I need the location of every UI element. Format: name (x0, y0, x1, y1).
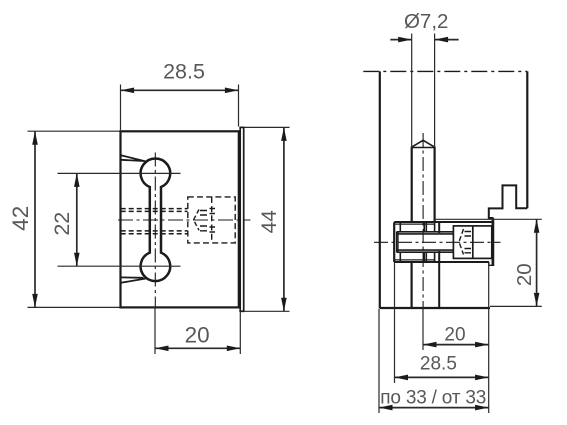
svg-text:20: 20 (513, 263, 536, 286)
body bottom edge (394, 261, 489, 263)
svg-text:22: 22 (50, 212, 74, 236)
svg-text:28.5: 28.5 (420, 354, 457, 375)
dim 28.5 line (121, 89, 239, 91)
cam housing divider (472, 226, 474, 259)
pin edges (412, 148, 435, 223)
pin shoulder (412, 147, 435, 149)
body left edge (393, 222, 395, 262)
dim 44 extension lines (245, 127, 290, 311)
flange strip right (240, 127, 244, 311)
body inner left flange (399, 222, 401, 262)
dim 20 bottom-left extension lines (155, 307, 240, 354)
spring tab bottom (121, 277, 147, 282)
dim 20 bottom line (423, 344, 489, 346)
dim po33 line (379, 407, 489, 409)
hidden cam glyphs left view (194, 210, 200, 231)
body centerline horizontal (374, 241, 501, 243)
cam glyphs right view (459, 229, 464, 255)
hidden dashed box inner divider (211, 197, 213, 243)
body bottom edge inner (394, 259, 434, 261)
screw end caps (397, 232, 398, 252)
bracket plate (492, 219, 495, 265)
body gap verticals (424, 222, 434, 262)
dim 42 extension lines (28, 131, 120, 307)
dim 22 extension lines (58, 173, 181, 266)
pin centerline (422, 133, 424, 308)
keyhole slot (141, 159, 171, 282)
dia 7.2 dim lines (390, 39, 458, 41)
arrowheads right view (398, 37, 412, 43)
dim 28.5 extension lines (121, 85, 239, 131)
panel bottom edge (380, 307, 490, 309)
pin chamfer tip (411, 140, 436, 147)
body top edge inner (394, 223, 434, 225)
body top edge (394, 221, 492, 223)
arrowheads left view (121, 88, 135, 94)
dim 28.5 bottom line (395, 376, 489, 378)
dim 20 right line (536, 219, 538, 306)
panel inner surface line (438, 222, 440, 308)
svg-text:по 33 / от 33: по 33 / от 33 (380, 387, 486, 408)
dim 20 right extension lines (435, 219, 542, 306)
dim 44 line (283, 127, 285, 311)
dim 22 line (76, 173, 78, 266)
plate outline (121, 131, 239, 307)
svg-text:28.5: 28.5 (163, 60, 205, 84)
hidden dashed box (188, 197, 235, 243)
centerline horizontal left view (118, 219, 251, 221)
panel left edge (379, 71, 381, 308)
svg-text:20: 20 (185, 322, 210, 347)
svg-text:44: 44 (258, 210, 281, 234)
svg-text:20: 20 (444, 324, 465, 345)
svg-text:42: 42 (8, 206, 33, 231)
cam housing box (453, 226, 491, 259)
hidden dashed line pair lower (121, 231, 188, 234)
dia 7.2 extension lines (412, 34, 435, 148)
centerline vertical slot (154, 153, 156, 308)
screw band lines (397, 232, 454, 252)
screw shank below body (411, 262, 413, 308)
dim 20 bottom-left line (155, 347, 240, 349)
dim 42 line (34, 131, 36, 307)
bottom dims extension lines (379, 262, 489, 413)
svg-text:Ø7,2: Ø7,2 (404, 10, 448, 33)
hook profile (489, 185, 528, 219)
spring tab top (121, 155, 147, 161)
hidden dashed line pair upper (121, 209, 188, 212)
panel right edge (526, 71, 528, 208)
top dashed break line (363, 70, 527, 72)
